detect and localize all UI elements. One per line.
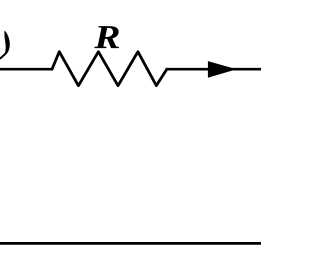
wire : resistor to right edge — [166, 68, 262, 71]
arrowhead : current direction on top wire — [208, 61, 237, 78]
wire : top-left segment from source (off-canvas) to resistor — [0, 68, 53, 71]
label R : resistor designator (serif bold italic glyph outline) — [94, 26, 119, 48]
label ) : cut-off closing parenthesis of source label at left edge — [0, 30, 10, 61]
wire : bottom return wire — [0, 242, 262, 245]
resistor R : zigzag body — [52, 52, 167, 86]
